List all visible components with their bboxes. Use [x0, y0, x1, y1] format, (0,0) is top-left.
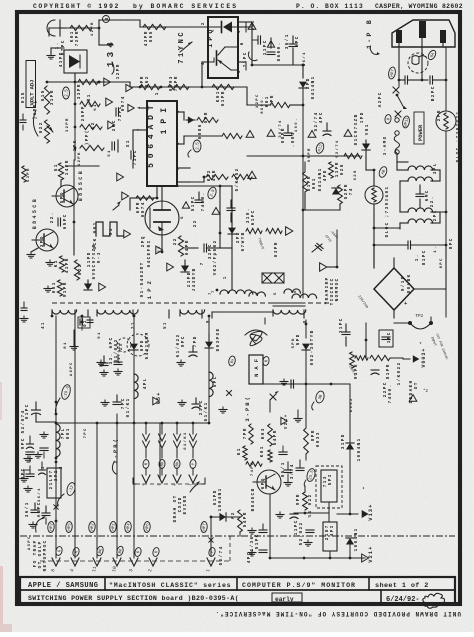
- IC IP1 TDA4605 box: [147, 101, 177, 186]
- wire RP2 down: [445, 131, 447, 245]
- common triangle sq2: [122, 192, 129, 200]
- capacitor CP11 220/25: [290, 513, 298, 515]
- common tri mc3: [308, 131, 316, 138]
- resistor RP14 1K: [59, 256, 64, 272]
- capacitor CP23 200pF: [203, 244, 205, 252]
- inductor LP5: [209, 372, 213, 397]
- oval 6A: [427, 49, 438, 61]
- capacitor CP4 47/25: [323, 130, 331, 132]
- wire bp2 arrow: [112, 462, 116, 474]
- hard disc pins chevrons: [145, 468, 147, 475]
- wire stub QP1 right: [245, 22, 247, 32]
- capacitor bl1: [26, 473, 34, 475]
- common tri mc4: [344, 130, 352, 137]
- oval 2.8: [206, 186, 217, 200]
- extra grounds bottom left: [23, 476, 25, 479]
- wire prongs down: [398, 43, 400, 80]
- capacitor CP15 63/10: [259, 529, 267, 531]
- ground RP14: [49, 260, 51, 263]
- ground LP7 bottom: [43, 432, 45, 435]
- common tri rm2: [286, 227, 293, 235]
- wire to transformer pin7: [231, 248, 233, 290]
- FAN box: [249, 355, 263, 384]
- arrow +306V: [413, 355, 420, 363]
- wire QP2 drain up: [161, 186, 163, 200]
- small caps near CNY17: [257, 36, 259, 44]
- wire QP5: [60, 180, 62, 186]
- wire QP2 source down: [161, 235, 163, 252]
- resistor RP30: [266, 228, 282, 233]
- common tri ht: [409, 395, 417, 402]
- cap near 317 top: [287, 474, 289, 480]
- diode DP7 EGP30D: [208, 316, 210, 334]
- opto LED DP: [208, 26, 221, 28]
- oval 2.5 at pin3: [193, 140, 201, 152]
- resistor PP52 1K: [80, 101, 100, 106]
- capacitor CP15 .0047: [182, 202, 189, 208]
- output down arrows to hard disc pins: [145, 423, 147, 434]
- resistor RP25 47: [338, 185, 343, 204]
- arrow +12V out: [362, 554, 369, 562]
- wire color R2: [72, 547, 80, 557]
- wire DP2 down: [302, 88, 304, 210]
- label HP4: [124, 521, 131, 533]
- hard disc pins ovals: [143, 459, 150, 469]
- resistor right of pin3: [222, 133, 242, 138]
- wire color BK1: [96, 546, 105, 557]
- ground sec4: [100, 360, 102, 363]
- capacitor CP19 .0047: [315, 243, 323, 250]
- resistor row4: [80, 145, 104, 150]
- capacitor CPx line filter 2: [429, 76, 431, 84]
- transistor QP3 BC548B: [36, 229, 58, 251]
- resistor RP8 3300: [304, 428, 309, 454]
- cap row near pin14: [87, 319, 93, 321]
- wire pin5 RP6: [156, 192, 158, 198]
- wire top bus: [49, 27, 99, 29]
- capacitor CP17 at pin7: [130, 151, 132, 159]
- diode DP14 box: [64, 50, 87, 73]
- capacitor sec c1: [79, 319, 81, 325]
- wire DP7 down: [208, 348, 210, 423]
- capacitor CP1 boxed: [379, 330, 393, 347]
- wire switch to LP3: [396, 155, 398, 162]
- common tri rm3: [320, 263, 327, 271]
- diode DP12 BYD34J: [181, 265, 189, 272]
- ZP1 winding marks: [262, 273, 284, 283]
- wire RP33 row: [74, 82, 76, 95]
- resistor RP9 220 1pct: [303, 492, 308, 510]
- capacitor CP27: [115, 108, 117, 116]
- capacitor sec c3: [114, 361, 122, 363]
- ZP1 aux winding w4 with core: [212, 311, 273, 313]
- common tri ct1: [212, 208, 220, 215]
- label HP11: [402, 116, 411, 129]
- junction dots y87 bus: [139, 86, 142, 89]
- AC inlet housing BP1: [392, 20, 455, 47]
- capacitor CP7 1K/10: [113, 401, 121, 403]
- node pin1 label: [160, 86, 163, 89]
- common triangle sq3: [124, 230, 131, 238]
- wire sec v bus x56: [55, 316, 57, 558]
- resistor small above QP6: [243, 446, 247, 460]
- capacitor CP18 .1: [407, 241, 409, 249]
- junction dots bus x303: [302, 155, 305, 158]
- wire bus y27 to opto: [99, 19, 140, 21]
- resistor RP15 100: [303, 172, 308, 192]
- ZP1 primary coil pin7-1: [220, 290, 253, 294]
- oval 8x: [228, 356, 236, 367]
- label VOLT ADJ PP1: [26, 61, 36, 108]
- scan artifact pink bottom: [0, 624, 12, 632]
- wire RP7 left: [246, 87, 248, 105]
- resistor RP4 21K: [206, 174, 228, 179]
- resistor RP18 220K: [370, 355, 390, 360]
- capacitor CPx line filter 1: [404, 76, 406, 84]
- junction X bp3: [270, 394, 276, 400]
- resistor RP34 560: [143, 24, 166, 29]
- potentiometer 220: [44, 120, 49, 143]
- junction dots bus x56: [55, 401, 58, 404]
- capacitor near qp6 row: [279, 451, 287, 453]
- wire opto pin4 down: [202, 61, 208, 63]
- common tri qp2b: [167, 263, 174, 271]
- wire y27 opto to right: [238, 21, 252, 23]
- wire color Y: [208, 547, 216, 557]
- resistor RP19 left: [355, 356, 368, 360]
- capacitor CP22 .0047: [371, 369, 379, 371]
- capacitor ct2: [227, 207, 235, 209]
- wire node3 down: [98, 28, 100, 45]
- switch SP1: [397, 95, 404, 108]
- fuse GMA-3 spring: [395, 131, 399, 135]
- wire y558 bus: [211, 557, 350, 559]
- capacitor bl2: [42, 512, 50, 514]
- resistor RP10 10K: [212, 84, 234, 89]
- oval hp12: [315, 142, 325, 155]
- oval -19.6: [60, 384, 72, 401]
- resistor 22 RP40: [178, 236, 183, 256]
- common triangle a1: [104, 78, 111, 86]
- capacitor 47/35: [296, 467, 304, 469]
- wires output rails: [74, 330, 76, 558]
- diode DP6 MBR1045 dashed circle: [127, 334, 149, 356]
- common tri mc1: [246, 131, 254, 138]
- bridge ac wires: [393, 258, 395, 268]
- board boundary dashdot: [20, 535, 455, 537]
- resistor RP45 2A: [238, 510, 243, 532]
- wire bus y87: [47, 81, 130, 83]
- wire left column: [74, 73, 76, 82]
- resistor RP2 thermistor: [436, 111, 456, 131]
- capacitor 7812 gnd: [306, 529, 314, 531]
- capacitor CP56 .22: [57, 218, 59, 226]
- capacitor CP10 470/25: [32, 409, 41, 411]
- inlet prong N: [440, 30, 446, 43]
- thermistor RP1 10 COLD: [365, 186, 383, 204]
- wire bus y423: [56, 422, 209, 424]
- extra cap near border bottom: [21, 307, 27, 309]
- label HP1: [109, 521, 116, 533]
- inlet prong E: [419, 21, 426, 38]
- oval 3B: [315, 390, 326, 404]
- regulator IP3 79L12 box: [47, 468, 61, 498]
- signature scribble: [423, 593, 445, 608]
- wire drain node to DP2: [162, 185, 220, 187]
- fan blades: [250, 331, 262, 345]
- wire 306 node: [365, 323, 367, 358]
- fuse FP1 dashed circles: [408, 53, 428, 73]
- bridge rectifier DP9 KBL08: [374, 268, 414, 310]
- common tri rm1: [248, 171, 256, 178]
- caps near left border top: [20, 119, 26, 121]
- common triangle dp11: [99, 283, 106, 291]
- junction dots y558: [116, 535, 118, 537]
- wire color BK2: [116, 546, 125, 557]
- resistor RP11 820: [329, 162, 334, 178]
- common tri mc2: [267, 130, 275, 137]
- ground QP3 emitter: [31, 248, 38, 252]
- diode DP5 BYT03-200: [305, 320, 307, 338]
- capacitor fan cap: [290, 380, 292, 388]
- choke LP2: [408, 208, 433, 212]
- resistor 250K: [232, 174, 252, 179]
- inductor LP7 100u: [56, 424, 60, 457]
- resistor bc left: [246, 462, 262, 467]
- ZP1 secondary w3: [180, 310, 205, 314]
- diode DP2 BYW76: [231, 186, 233, 222]
- capacitor CP5A 1/63: [31, 509, 39, 511]
- wire 31v horiz: [350, 513, 358, 515]
- more caps left rail: [40, 447, 48, 449]
- ZP1 secondary w2: [97, 310, 138, 314]
- diode DP 1N4001 bottom: [346, 538, 354, 545]
- ground sec1: [73, 344, 75, 347]
- resistor RP15b: [246, 228, 262, 233]
- oval R fan: [262, 356, 270, 366]
- wire color O1: [134, 547, 142, 557]
- resistor RP19 100: [57, 280, 62, 296]
- label HP7: [388, 67, 397, 80]
- capacitor 1/50: [284, 469, 292, 471]
- common tri tc1: [248, 23, 256, 30]
- node fan: [305, 323, 308, 326]
- square wave glyph: [96, 222, 123, 236]
- wire fan rail to dp13: [331, 383, 350, 385]
- capacitor CP7A: [47, 20, 55, 36]
- wire x-arrow: [227, 391, 232, 396]
- ground bp3: [297, 416, 299, 419]
- resistor RP33: [78, 79, 98, 84]
- optocoupler QP1 box: [208, 17, 238, 78]
- common triangle a3: [108, 121, 115, 129]
- regulator IP5 317 dashed box: [316, 466, 342, 508]
- wire QP1 pin1 to caps: [246, 26, 252, 28]
- wire y156 bus: [247, 155, 360, 157]
- wire x134 rail: [133, 316, 135, 334]
- label 2.5 oval: [63, 87, 70, 99]
- capacitor CP16 .22: [416, 193, 424, 195]
- label HP7b: [200, 521, 207, 533]
- wire sec v bus x75: [74, 316, 76, 330]
- resistor RP6 4700: [136, 196, 154, 200]
- inductor LP4: [134, 374, 138, 399]
- choke LP3: [408, 166, 433, 170]
- resistor RP row 2K: [80, 124, 102, 129]
- transistor QP5 BC558B: [56, 185, 78, 207]
- resistor RP13 510: [44, 86, 49, 114]
- arrow +12V small: [281, 417, 287, 424]
- wire rm bus: [304, 162, 306, 172]
- common triangle a2: [106, 98, 113, 106]
- oval 0a: [384, 114, 392, 124]
- wire DP2 to CP23: [231, 234, 233, 248]
- diode DP2 1N4148: [302, 65, 304, 78]
- common tri pin8 arrow: [188, 116, 194, 123]
- oval 23.5: [306, 468, 317, 483]
- resistor on y156: [344, 153, 362, 158]
- wire bus y423 extend: [208, 422, 210, 424]
- capacitor CP12 1K/16: [192, 403, 200, 405]
- arrow +5V: [134, 400, 148, 402]
- junction X switch top: [393, 87, 399, 93]
- resistor RP27 10K: [70, 25, 92, 30]
- wire -19 node: [36, 401, 56, 403]
- wire DP6 down: [133, 350, 135, 423]
- wire y460 bus: [245, 459, 270, 461]
- extra resistor left border column: [22, 166, 26, 182]
- zener DP1 wire: [365, 158, 367, 170]
- caps bottom-left extra row: [27, 443, 34, 445]
- wire LP7 to HP3: [55, 453, 57, 458]
- resistor RP7b: [249, 424, 253, 444]
- title block outline: [20, 577, 455, 604]
- resistor RP5 6800: [197, 117, 218, 122]
- common tri qp2a: [156, 246, 163, 254]
- label HP3: [47, 521, 54, 533]
- wire QP6 base: [253, 481, 257, 483]
- wire vertical left bus: [74, 95, 76, 160]
- resistor RP9 260: [140, 84, 160, 89]
- diode DP13 1N4001 to +31V: [349, 424, 351, 443]
- resistor RP17 3900: [168, 84, 189, 89]
- capacitor RP50 100: [284, 132, 292, 134]
- capacitor CP9 220/16: [189, 351, 197, 353]
- wire rm3 down: [336, 230, 338, 267]
- wire pin9 down: [264, 318, 266, 324]
- label HP5: [65, 521, 72, 533]
- resistor RP45 30K: [268, 424, 273, 446]
- dashed connector line: [40, 560, 230, 562]
- more common triangles upper mid: [128, 104, 134, 111]
- diode DP4 1N4148: [332, 188, 340, 195]
- wire fan bus: [305, 350, 307, 384]
- resistor 220 pot2: [74, 260, 79, 280]
- regulator IP4 7812 box: [323, 522, 337, 551]
- capacitor CP11 .0068: [267, 41, 274, 47]
- capacitor CP13 right: [342, 331, 350, 333]
- arrow +31V: [362, 510, 369, 518]
- resistor RP19b 250K: [350, 352, 355, 368]
- wire color G: [55, 546, 63, 556]
- wire transistor bus: [73, 160, 75, 230]
- oval -12: [66, 482, 77, 497]
- extra wire top right of IP1: [183, 112, 185, 120]
- capacitor CP5 1/63: [289, 43, 297, 45]
- X junction marks: [54, 505, 58, 509]
- opto transistor: [225, 46, 238, 48]
- capacitor CP4b: [259, 549, 267, 551]
- wire +31V: [337, 513, 358, 515]
- node 3: [98, 27, 101, 30]
- wire bottom bus y462: [55, 461, 57, 463]
- wire y65 bus: [252, 64, 303, 66]
- resistor RP7 10K: [270, 102, 290, 107]
- dot tp rail: [445, 211, 448, 214]
- label HP2: [88, 521, 95, 533]
- test point TP1: [408, 321, 412, 325]
- transistor QP6 BC548B: [257, 470, 281, 494]
- capacitor sec c2: [100, 362, 108, 364]
- wire choke out: [374, 227, 400, 229]
- capacitor row4: [111, 142, 113, 150]
- label HP6: [143, 521, 150, 533]
- MOSFET QP2 IRFEC40 circle: [145, 201, 179, 235]
- oval AB: [378, 166, 388, 179]
- capacitor CP big curve: [248, 52, 257, 61]
- resistor RP41: [58, 163, 63, 180]
- inlet prong L: [396, 30, 402, 43]
- transformer ZP1 dashed boundary: [52, 302, 332, 304]
- node dot DP6 rail: [133, 315, 136, 318]
- common triangle sq1: [117, 173, 124, 181]
- label early boxed: [272, 593, 302, 602]
- ground at DP14: [50, 53, 52, 56]
- hard disc bracket: [133, 478, 205, 484]
- wire 317 down: [328, 502, 330, 513]
- wire color O2: [152, 547, 160, 557]
- label POWER boxed: [414, 112, 424, 144]
- connector pins chevrons: [52, 558, 60, 566]
- ZP1 secondary w1 pin14: [52, 310, 77, 314]
